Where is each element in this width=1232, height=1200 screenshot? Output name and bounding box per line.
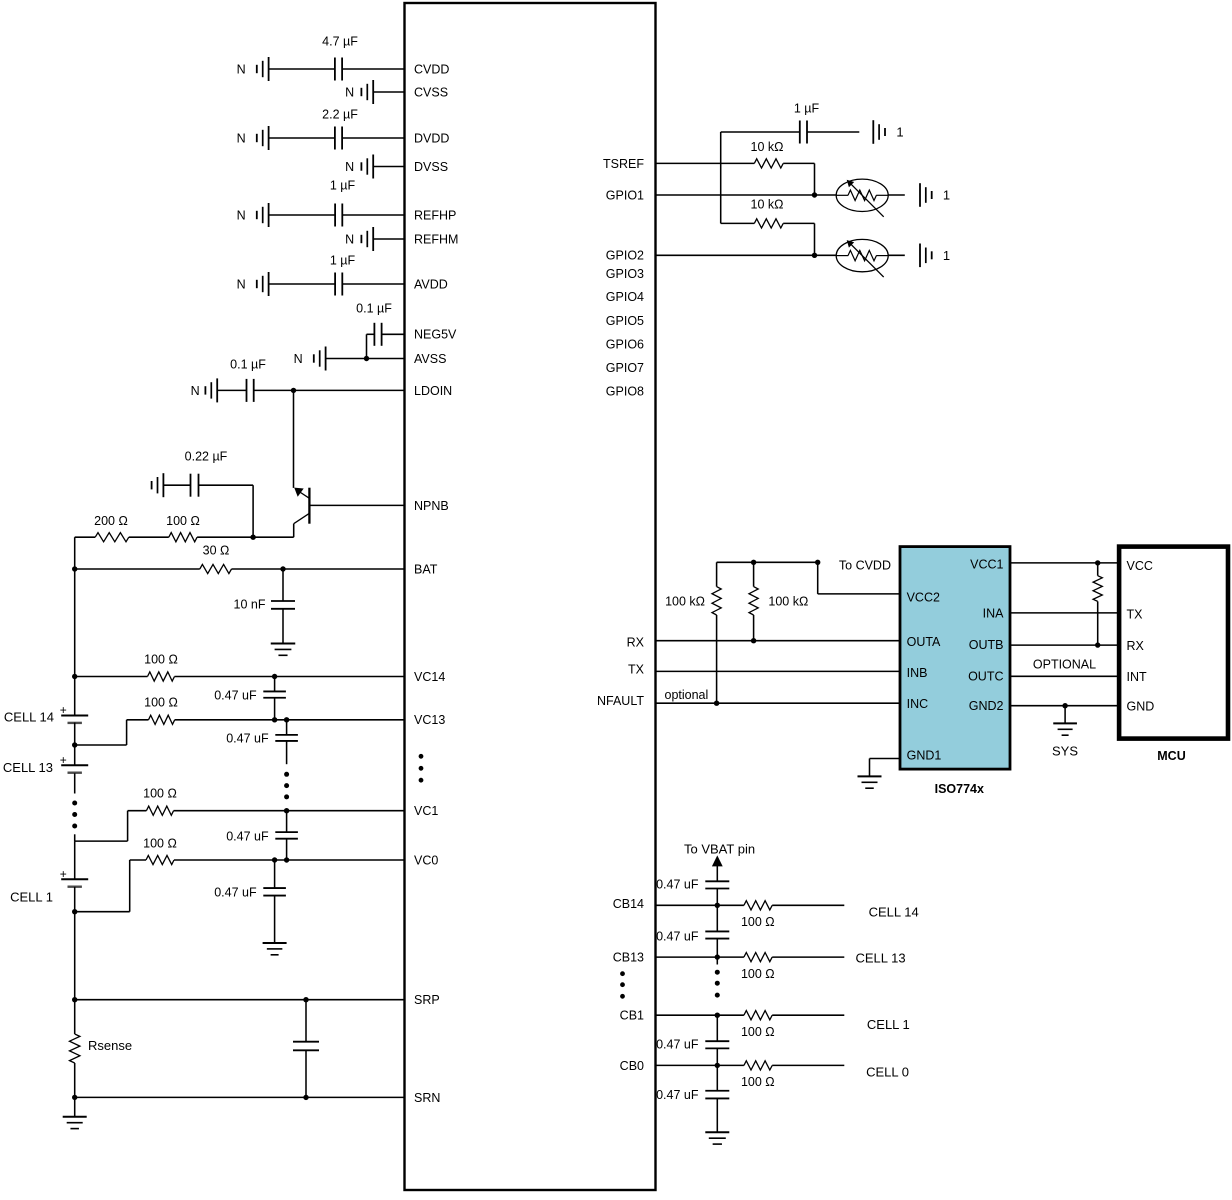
pin label GPIO2 [606, 249, 644, 263]
wire GND1 [870, 759, 901, 777]
capacitor 2.2 uF (DVDD) [335, 127, 342, 150]
pin label LDOIN [414, 384, 452, 398]
wire CELL14 minus [74, 723, 76, 745]
MCU pin label RX [1127, 639, 1145, 653]
ellipsis cap chain [284, 772, 289, 800]
svg-text:To CVDD: To CVDD [839, 558, 891, 572]
svg-text:CVSS: CVSS [414, 85, 448, 99]
resistor 100 kohm (RX pullup) [749, 562, 758, 640]
svg-text:GPIO4: GPIO4 [606, 290, 644, 304]
pin label NFAULT [597, 694, 644, 708]
svg-text:VCC1: VCC1 [970, 557, 1003, 571]
junction RX MCU pullup [1095, 642, 1100, 647]
svg-text:100 kΩ: 100 kΩ [665, 594, 705, 608]
wire 200 ohm down to BAT rail [74, 537, 76, 569]
svg-text:0.47 uF: 0.47 uF [214, 688, 257, 702]
svg-text:N: N [294, 352, 303, 366]
svg-text:NPNB: NPNB [414, 499, 449, 513]
value label 1 uF (REFHP) [330, 178, 356, 192]
pin label CVSS [414, 85, 448, 99]
svg-text:CB14: CB14 [613, 897, 644, 911]
svg-text:OUTB: OUTB [969, 638, 1004, 652]
wire GPIO1 to stub [888, 194, 905, 196]
svg-text:INT: INT [1127, 670, 1148, 684]
cell label CELL 13 [3, 760, 53, 775]
net stub 1 (TSREF cap) [873, 120, 903, 144]
svg-text:OUTA: OUTA [907, 635, 941, 649]
wire CB14 [656, 904, 845, 906]
ISO774x pin label VCC1 [970, 557, 1003, 571]
wire NEG5V [382, 333, 405, 335]
ellipsis battery stack [72, 801, 77, 829]
resistor 100 ohm (CB0) [744, 1061, 772, 1070]
capacitor 0.47 uF (VC0) [263, 888, 286, 896]
capacitor SRP-SRN [293, 1042, 319, 1051]
value label 0.1 uF (NEG5V) [356, 301, 392, 315]
pin label AVDD [414, 277, 448, 291]
capacitor 1 uF (REFHP) [335, 204, 342, 227]
svg-text:100 Ω: 100 Ω [741, 1025, 775, 1039]
wire cap to CB14 [716, 889, 718, 906]
thermistor (GPIO1) [836, 179, 888, 217]
value label 100 ohm (VC13) [144, 695, 178, 709]
capacitor 1 uF (AVDD) [335, 273, 342, 296]
svg-text:+: + [60, 703, 67, 717]
svg-text:GND1: GND1 [907, 748, 942, 762]
pin label SRP [414, 993, 440, 1007]
svg-text:CELL 14: CELL 14 [869, 905, 919, 920]
junction SYS ground [1062, 703, 1067, 708]
wire VC13 chain lower [286, 741, 288, 764]
svg-text:GPIO6: GPIO6 [606, 337, 644, 351]
battery CELL 1 [60, 867, 89, 887]
svg-text:N: N [237, 208, 246, 222]
wire NFAULT to INC [656, 702, 901, 704]
svg-text:INB: INB [907, 666, 928, 680]
svg-text:N: N [345, 85, 354, 99]
battery CELL 14 [60, 703, 89, 723]
svg-text:optional: optional [665, 688, 709, 702]
resistor 200 ohm [95, 533, 129, 542]
svg-text:TX: TX [628, 662, 645, 676]
svg-text:1: 1 [896, 125, 903, 140]
svg-text:CVDD: CVDD [414, 62, 449, 76]
wire REFHM [373, 238, 404, 240]
pin label REFHM [414, 232, 458, 246]
junction BAT cap [280, 566, 285, 571]
wire GPIO1 [656, 194, 837, 196]
wire VCC1 to VCC [1010, 562, 1119, 564]
wire stack BAT to VC14 [74, 569, 76, 677]
capacitor 1 uF (TSREF) [800, 121, 807, 144]
value label 100 ohm (CB0) [741, 1075, 775, 1089]
wire SRP-SRN cap upper [305, 1000, 307, 1042]
svg-text:GND2: GND2 [969, 699, 1004, 713]
svg-text:100 Ω: 100 Ω [144, 652, 178, 666]
value label 100 ohm (VC0) [143, 836, 177, 850]
pin label SRN [414, 1091, 440, 1105]
ground (10 nF) [271, 644, 296, 656]
svg-text:MCU: MCU [1157, 749, 1185, 763]
wire NEG5V cap to AVSS [367, 334, 375, 358]
value label 0.47 uF (CB1-CB0) [656, 1037, 699, 1051]
wire CB1 [656, 1014, 845, 1016]
svg-text:CELL 0: CELL 0 [866, 1064, 909, 1079]
pin label NEG5V [414, 328, 457, 342]
wire 0.22 uF cap [163, 484, 253, 486]
wire TSREF [656, 163, 815, 195]
ISO774x pin label VCC2 [907, 591, 940, 605]
svg-text:RX: RX [1127, 639, 1145, 653]
resistor 100 ohm (VC0) [146, 855, 174, 864]
svg-text:VC0: VC0 [414, 853, 438, 867]
capacitor 0.1 uF (LDOIN) [247, 379, 254, 402]
svg-text:TSREF: TSREF [603, 157, 644, 171]
ISO774x pin label GND1 [907, 748, 942, 762]
junction CELL1 bottom [72, 909, 77, 914]
svg-text:0.47 uF: 0.47 uF [226, 829, 269, 843]
value label 0.47 uF (VC14-VC13) [214, 688, 257, 702]
net label CELL 1 [867, 1017, 910, 1032]
svg-text:2.2 µF: 2.2 µF [322, 107, 358, 121]
net stub N (AVDD) [237, 272, 269, 296]
wire chain to CB13 [716, 939, 718, 958]
svg-text:0.47 uF: 0.47 uF [656, 929, 699, 943]
svg-text:1 µF: 1 µF [330, 253, 356, 267]
ground (VC0 cap) [263, 943, 287, 955]
value label 100 ohm (CB14) [741, 915, 775, 929]
svg-text:VC14: VC14 [414, 670, 445, 684]
net label To VBAT pin [684, 841, 755, 856]
MCU pin label INT [1127, 670, 1148, 684]
wire VC13 cap chain [286, 720, 288, 735]
ground (GND1) [858, 776, 882, 788]
value label 100 ohm (VC14) [144, 652, 178, 666]
junction pullup rail [751, 560, 756, 565]
value label 10 kohm (GPIO2) [751, 197, 784, 211]
arrow to VBAT [712, 855, 723, 881]
svg-text:REFHP: REFHP [414, 208, 456, 222]
svg-text:ISO774x: ISO774x [935, 782, 984, 796]
svg-text:100 Ω: 100 Ω [741, 967, 775, 981]
capacitor 0.22 uF [191, 474, 199, 497]
svg-text:SYS: SYS [1052, 743, 1078, 758]
svg-text:GND: GND [1127, 699, 1155, 713]
ellipsis inside IC between VC13 and VC1 [419, 754, 424, 783]
wire INA to TX [1010, 612, 1119, 614]
svg-text:OPTIONAL: OPTIONAL [1033, 658, 1096, 672]
net label To CVDD [839, 558, 891, 572]
svg-text:N: N [237, 277, 246, 291]
value label 10 nF [234, 597, 266, 611]
wire LDOIN to transistor emitter [293, 390, 295, 488]
pin label CB1 [620, 1009, 644, 1023]
svg-text:100 Ω: 100 Ω [741, 915, 775, 929]
value label 2.2 uF [322, 107, 358, 121]
value label 30 ohm [203, 544, 230, 558]
svg-text:N: N [345, 160, 354, 174]
wire CELL1 bottom to VC0 [75, 860, 130, 912]
wire NPNB base lead [309, 504, 404, 506]
svg-text:0.47 uF: 0.47 uF [656, 1088, 699, 1102]
wire OUTC to INT [1010, 675, 1119, 677]
resistor 100 ohm (VC13) [149, 715, 175, 724]
svg-text:GPIO5: GPIO5 [606, 314, 644, 328]
svg-text:1 µF: 1 µF [330, 178, 356, 192]
capacitor 0.1 uF (NEG5V) [374, 323, 381, 346]
ISO774x pin label INC [907, 697, 929, 711]
wire CELL13 minus [74, 773, 76, 793]
svg-text:+: + [60, 867, 67, 881]
wire stack corner to VC1 [75, 811, 128, 841]
pin label RX [627, 636, 645, 650]
capacitor 0.47 uF (VC14-VC13) [263, 691, 286, 697]
wire below CB13 [716, 957, 718, 964]
svg-text:To VBAT pin: To VBAT pin [684, 841, 755, 856]
value label 200 ohm [94, 514, 128, 528]
wire VC1 rail [128, 810, 405, 812]
value label 0.47 uF (CB14 top) [656, 878, 699, 892]
wire TSREF riser [720, 132, 722, 223]
wire 0.22 uF to base node [252, 485, 254, 537]
svg-text:N: N [237, 62, 246, 76]
svg-text:RX: RX [627, 636, 645, 650]
junction VC13 cap A [272, 717, 277, 722]
pin label GPIO3 [606, 267, 644, 281]
svg-text:SRN: SRN [414, 1091, 440, 1105]
cell label CELL 1 [10, 890, 53, 905]
svg-text:+: + [60, 753, 67, 767]
capacitor 0.47 uF (VC13 chain) [275, 735, 298, 741]
net stub N (REFHP) [237, 203, 269, 227]
value label 100 ohm (VC1) [143, 786, 177, 800]
svg-text:AVSS: AVSS [414, 352, 446, 366]
wire GND2 to GND [1010, 705, 1119, 707]
wire SRP rail [75, 999, 405, 1001]
svg-text:1: 1 [943, 188, 950, 203]
wire CB1-CB0 chain [716, 1015, 718, 1041]
pin label CB0 [620, 1059, 644, 1073]
capacitor 0.47 uF (VC1-VC0) [275, 832, 298, 839]
terminal To CVDD [815, 560, 820, 565]
wire transistor collector drop [293, 524, 295, 538]
pin label GPIO1 [606, 188, 644, 202]
ISO774x pin label OUTA [907, 635, 941, 649]
wire VC13 rail [127, 719, 405, 721]
wire CB0 cap to ground [716, 1099, 718, 1133]
wire GPIO2 [656, 254, 837, 256]
wire GPIO2 to stub [888, 254, 905, 256]
svg-text:4.7 µF: 4.7 µF [322, 34, 358, 48]
svg-text:200 Ω: 200 Ω [94, 514, 128, 528]
MCU pin label VCC [1127, 559, 1153, 573]
junction VCC pullup [1095, 560, 1100, 565]
svg-text:100 Ω: 100 Ω [143, 836, 177, 850]
resistor 30 ohm [200, 564, 232, 573]
resistor 100 kohm (NFAULT pullup) [712, 562, 721, 703]
junction BAT left [72, 566, 77, 571]
value label 0.1 uF (LDOIN) [230, 357, 266, 371]
wire AVDD [269, 283, 405, 285]
IC U1 battery monitor (main block) [405, 3, 656, 1190]
wire LDOIN [217, 389, 404, 391]
ISO774x pin label OUTC [968, 670, 1003, 684]
wire SRP-SRN cap lower [305, 1050, 307, 1097]
wire VC14 rail [75, 676, 405, 678]
wire VC14-VC13 cap lower [274, 698, 276, 720]
svg-text:GPIO3: GPIO3 [606, 267, 644, 281]
junction CB1 [715, 1013, 720, 1018]
resistor 100 ohm (base) [169, 533, 197, 542]
net stub N (CVDD) [237, 57, 269, 81]
value label 0.47 uF (VC0) [214, 885, 257, 899]
net stub 1 (GPIO2) [920, 244, 950, 268]
wire VC0 cap lower [274, 896, 276, 944]
wire VC14-VC13 cap upper [274, 677, 276, 692]
wire TX to INB [656, 670, 901, 672]
ellipsis inside IC between CB13 and CB1 [620, 971, 625, 998]
net stub N (CVSS) [345, 80, 373, 104]
svg-text:100 Ω: 100 Ω [741, 1075, 775, 1089]
ISO774x pin label GND2 [969, 699, 1004, 713]
svg-text:10 kΩ: 10 kΩ [751, 140, 784, 154]
junction VC0 cap B [284, 857, 289, 862]
net stub N (REFHM) [345, 227, 373, 251]
pin label REFHP [414, 208, 456, 222]
pin label GPIO5 [606, 314, 644, 328]
junction LDOIN [291, 388, 296, 393]
wire DVDD [269, 137, 405, 139]
wire CELL14 bottom to VC13 [75, 720, 127, 745]
junction VC14 left [72, 674, 77, 679]
pin label GPIO8 [606, 384, 644, 398]
wire SRN to ground [74, 1097, 76, 1116]
wire VC1-VC0 cap lower [286, 839, 288, 860]
svg-text:N: N [191, 384, 200, 398]
svg-text:100 Ω: 100 Ω [143, 786, 177, 800]
pin label BAT [414, 562, 438, 576]
junction VC0 cap A [272, 857, 277, 862]
pin label TSREF [603, 157, 644, 171]
svg-text:INA: INA [983, 606, 1005, 620]
pin label VC13 [414, 713, 445, 727]
wire CB14-CB13 chain [716, 905, 718, 931]
ISO774x pin label OUTB [969, 638, 1004, 652]
pin label TX [628, 662, 645, 676]
svg-text:CB13: CB13 [613, 950, 644, 964]
value label 1 uF (AVDD) [330, 253, 356, 267]
wire CELL13 plus [74, 745, 76, 765]
svg-text:VC1: VC1 [414, 804, 438, 818]
resistor Rsense [70, 1000, 80, 1098]
svg-text:0.47 uF: 0.47 uF [656, 1037, 699, 1051]
wire CB13 [656, 956, 845, 958]
transistor Q1 (pass transistor) [294, 488, 310, 524]
value label 100 kohm (left) [665, 594, 705, 608]
svg-text:30 Ω: 30 Ω [203, 544, 230, 558]
junction SRP cap [303, 997, 308, 1002]
value label 100 kohm (right) [768, 594, 808, 608]
svg-text:0.47 uF: 0.47 uF [656, 878, 699, 892]
pin label DVSS [414, 160, 448, 174]
resistor 10 kohm (GPIO2) [754, 219, 783, 228]
svg-text:CELL 14: CELL 14 [4, 710, 54, 725]
value label 100 ohm (CB1) [741, 1025, 775, 1039]
junction RX pullup [751, 638, 756, 643]
ground (SRN) [63, 1117, 87, 1129]
value label 0.22 uF [185, 449, 228, 463]
ISO774x pin label INA [983, 606, 1005, 620]
capacitor 0.47 uF (CB1-CB0) [705, 1041, 729, 1048]
svg-text:DVSS: DVSS [414, 160, 448, 174]
value label 1 uF (TSREF) [794, 101, 820, 115]
wire RX to OUTA [656, 640, 901, 642]
svg-text:CELL 13: CELL 13 [856, 950, 906, 965]
svg-text:VCC: VCC [1127, 559, 1153, 573]
net stub N (DVSS) [345, 155, 373, 179]
junction AVSS/NEG5V [364, 356, 369, 361]
MCU pin label TX [1127, 607, 1144, 621]
svg-text:0.22 µF: 0.22 µF [185, 449, 228, 463]
pin label AVSS [414, 352, 446, 366]
wire stack to CELL1 [74, 841, 76, 879]
wire SRN rail [75, 1096, 405, 1098]
capacitor 0.47 uF (CB14-CB13) [705, 931, 729, 938]
resistor 100 ohm (VC14) [148, 672, 175, 681]
wire VCC2 feed [818, 562, 900, 594]
resistor 100 ohm (CB13) [744, 953, 772, 962]
resistor 10 kohm (GPIO1) [754, 159, 783, 168]
thermistor (GPIO2) [836, 239, 888, 277]
wire OUTB to RX [1010, 644, 1119, 646]
svg-text:100 Ω: 100 Ω [166, 514, 200, 528]
svg-text:CB0: CB0 [620, 1059, 644, 1073]
wire AVSS [326, 358, 405, 360]
net label OPTIONAL [1033, 658, 1096, 672]
net label SYS [1052, 743, 1078, 758]
svg-text:CELL 1: CELL 1 [10, 890, 53, 905]
svg-text:VC13: VC13 [414, 713, 445, 727]
pin label GPIO7 [606, 361, 644, 375]
svg-text:TX: TX [1127, 607, 1144, 621]
svg-text:1 µF: 1 µF [794, 101, 820, 115]
svg-text:CELL 1: CELL 1 [867, 1017, 910, 1032]
net stub 1 (GPIO1) [920, 183, 950, 207]
pin label GPIO6 [606, 337, 644, 351]
wire CELL1 minus [74, 887, 76, 912]
pin label VC0 [414, 853, 438, 867]
svg-text:100 kΩ: 100 kΩ [768, 594, 808, 608]
value label 100 ohm (CB13) [741, 967, 775, 981]
svg-text:BAT: BAT [414, 562, 438, 576]
pin label VC1 [414, 804, 438, 818]
wire CVSS [373, 91, 404, 93]
junction CELL14/CELL13 [72, 742, 77, 747]
net stub N (AVSS) [294, 347, 326, 371]
svg-text:CB1: CB1 [620, 1009, 644, 1023]
junction VC13 cap B [284, 717, 289, 722]
pin label DVDD [414, 131, 449, 145]
wire stack to SRP [74, 912, 76, 1000]
svg-text:N: N [237, 131, 246, 145]
value label 100 ohm (base) [166, 514, 200, 528]
wire REFHP [269, 214, 405, 216]
value label 4.7 uF [322, 34, 358, 48]
wire chain to CB0 [716, 1048, 718, 1065]
resistor MCU pullup [1093, 563, 1102, 645]
capacitor 10 nF [271, 601, 295, 609]
svg-text:AVDD: AVDD [414, 277, 448, 291]
